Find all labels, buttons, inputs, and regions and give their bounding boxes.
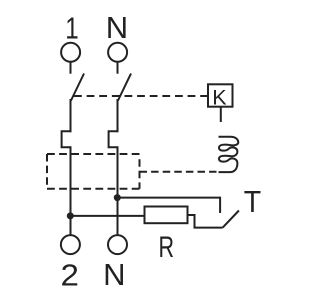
junction on pole 1 wire (node to resistor R)	[67, 212, 74, 219]
resistor R body	[145, 207, 188, 224]
svg-text:2: 2	[60, 257, 78, 292]
wire: N junction to test button fixed contact	[117, 198, 220, 213]
wire: pole N down to terminal N bottom	[117, 146, 119, 235]
wire: pole 1 jog through transformer	[62, 131, 71, 147]
dashed link: transformer to trip coil	[140, 171, 217, 173]
terminal 2 circle	[61, 235, 80, 254]
svg-text:K: K	[212, 85, 227, 109]
terminal 1 circle	[61, 43, 80, 62]
wire: pole 1 down to jog	[70, 99, 72, 132]
test button T blade	[223, 211, 239, 228]
wire: terminal N to pole N contact	[117, 62, 119, 74]
mechanical linkage (dashed) to relay K	[74, 95, 208, 97]
breaker pole N contact blade	[118, 74, 131, 101]
wire: relay K to trip coil	[220, 107, 222, 122]
svg-text:1: 1	[65, 11, 78, 46]
terminal N top circle	[108, 43, 127, 62]
wire: pole N jog through transformer	[109, 131, 118, 147]
svg-text:T: T	[244, 185, 261, 219]
svg-text:N: N	[106, 10, 128, 45]
terminal N bottom circle	[108, 235, 127, 254]
relay K box	[208, 84, 233, 106]
junction on N wire (node to test button)	[114, 194, 121, 201]
breaker pole 1 contact blade	[71, 74, 84, 101]
trip coil L	[219, 137, 239, 172]
svg-text:N: N	[103, 257, 125, 292]
wire: pole 1 down to terminal 2	[70, 146, 72, 235]
wire: pole N down to jog	[117, 99, 119, 132]
current transformer core (dashed box)	[47, 154, 140, 189]
wire: junction to resistor R	[70, 215, 144, 217]
wire: terminal 1 to pole 1 contact	[70, 62, 72, 74]
svg-text:R: R	[159, 232, 175, 264]
wire: resistor R to test button	[188, 215, 223, 228]
